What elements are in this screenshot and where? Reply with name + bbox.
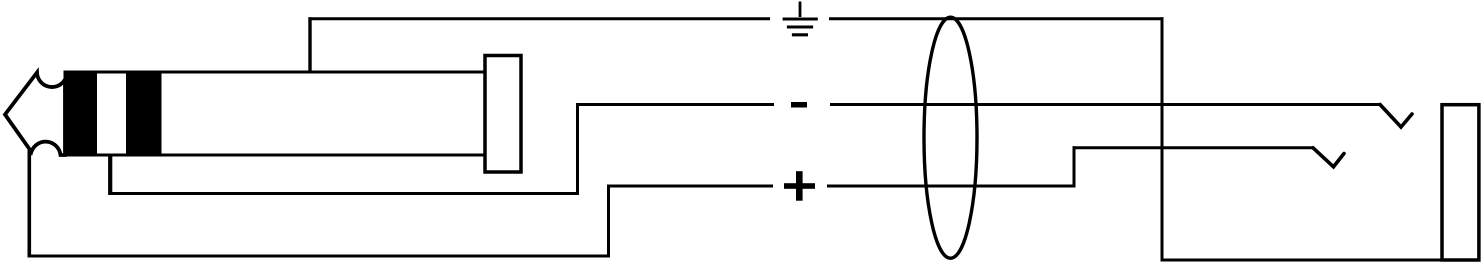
jack plug sleeve body <box>65 72 485 155</box>
plug bushing (chuck) <box>485 56 521 173</box>
wire: tip bottom run <box>29 255 611 258</box>
wire: shield vertical drop at right <box>1161 17 1164 261</box>
wire end hook: plus conductor <box>1313 148 1344 167</box>
insulator ring 1 <box>64 71 98 157</box>
wire end hook: minus conductor <box>1380 105 1412 128</box>
right connector block <box>1442 105 1479 260</box>
ground symbol <box>783 2 818 35</box>
wire: plus vertical up at right <box>1073 146 1076 187</box>
wire: tip contact lead down from plug tip <box>27 150 31 258</box>
minus polarity symbol <box>791 102 807 108</box>
cable jacket ellipse <box>924 17 977 258</box>
jack plug tip <box>5 73 65 156</box>
wire: tip feeder vertical up <box>607 185 610 258</box>
wire: minus line right segment through cable <box>830 103 1381 106</box>
plus polarity symbol <box>784 171 815 201</box>
wire: ring feeder vertical up <box>576 103 579 195</box>
insulator ring 2 <box>126 71 162 157</box>
wire: ring contact lead down from plug <box>108 153 112 195</box>
wire: sleeve lead up from plug body <box>308 17 311 73</box>
wire: ring feeder bottom run <box>110 192 579 195</box>
wire: minus line left segment <box>576 103 774 106</box>
wire: plus upper run to hook <box>1073 146 1315 149</box>
wire: shield line right of ground symbol <box>829 17 1164 20</box>
wire: shield line left of ground symbol <box>309 17 771 20</box>
wire: plus line left segment <box>607 185 773 188</box>
wire: plus line right segment through cable <box>827 185 1076 188</box>
wire: shield bottom run to right connector <box>1161 259 1445 262</box>
